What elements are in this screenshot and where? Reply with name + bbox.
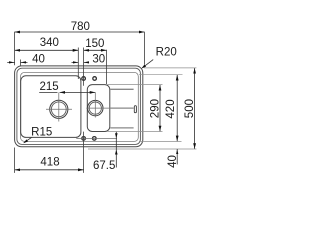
dim 67.5 vertical line <box>115 132 117 168</box>
extension line x78 <box>77 48 79 80</box>
extension line 418 left <box>14 148 16 173</box>
svg-text:40: 40 <box>167 155 179 168</box>
dim 215 line <box>39 91 57 93</box>
tap hole bottom A <box>82 137 86 141</box>
svg-text:500: 500 <box>184 99 196 118</box>
large bowl drain outer circle <box>50 100 68 118</box>
tap hole top 1 <box>82 77 86 81</box>
svg-text:418: 418 <box>40 156 59 168</box>
extension line 418 right / tap column <box>83 132 85 173</box>
extension line bowl left tick <box>20 60 22 66</box>
small bowl drain inner circle <box>89 102 101 114</box>
ref line sink bottom long <box>88 148 196 150</box>
tap hole top 2 <box>93 77 97 81</box>
svg-text:215: 215 <box>40 81 59 93</box>
small drain crosshair horizontal <box>86 107 110 109</box>
tap hole bottom B <box>93 137 97 141</box>
ref line sink top right <box>144 67 196 69</box>
large bowl drain inner circle <box>51 102 66 117</box>
dim 30 arrows <box>72 61 89 63</box>
dim 420 line <box>176 75 178 141</box>
small drain crosshair vertical <box>94 93 96 118</box>
svg-text:290: 290 <box>150 99 162 118</box>
extension line 150 right <box>106 50 108 84</box>
dim 67.5 up arrow <box>115 150 118 155</box>
dim 418 line <box>15 169 84 171</box>
dim 290 line <box>159 85 161 131</box>
small bowl drain outer circle <box>88 100 103 115</box>
bottom tap centerline <box>76 137 117 139</box>
large drain crosshair <box>46 93 72 122</box>
ref line ledge bottom right <box>139 140 182 142</box>
drainer groove bottom <box>110 127 133 129</box>
svg-text:420: 420 <box>165 99 177 118</box>
sink rim inner line <box>17 68 140 144</box>
svg-text:340: 340 <box>40 37 59 49</box>
dim 40 right arrows <box>176 149 178 164</box>
pressed ledge outline <box>21 72 139 141</box>
svg-text:30: 30 <box>92 54 105 66</box>
ref line ledge top right <box>139 74 183 76</box>
dim 150 line <box>84 49 107 51</box>
small bowl <box>87 85 110 132</box>
svg-text:40: 40 <box>32 54 45 66</box>
dim 780 line <box>15 31 145 33</box>
svg-text:R20: R20 <box>156 46 177 58</box>
R20 leader <box>145 60 153 66</box>
svg-text:780: 780 <box>71 21 90 33</box>
dim 40 arrows <box>7 61 27 63</box>
dim 67.5 down arrow <box>115 133 118 138</box>
sink outer edge 780x500 <box>15 66 143 147</box>
svg-text:R15: R15 <box>31 127 52 139</box>
ref line small bowl top <box>107 84 163 86</box>
dim 500 line <box>194 68 196 149</box>
extension line sink right top <box>143 32 145 65</box>
overflow slot <box>134 106 136 113</box>
ref line small bowl bottom <box>108 131 163 133</box>
dim 340 line <box>15 49 79 51</box>
extension line sink left <box>14 32 16 66</box>
drainer groove middle <box>110 107 134 109</box>
large bowl <box>21 76 81 138</box>
svg-text:150: 150 <box>85 38 104 50</box>
extension line tap1 top <box>83 48 85 86</box>
drainer groove top <box>110 88 133 90</box>
R15 leader <box>24 137 32 142</box>
svg-text:67.5: 67.5 <box>93 160 115 172</box>
